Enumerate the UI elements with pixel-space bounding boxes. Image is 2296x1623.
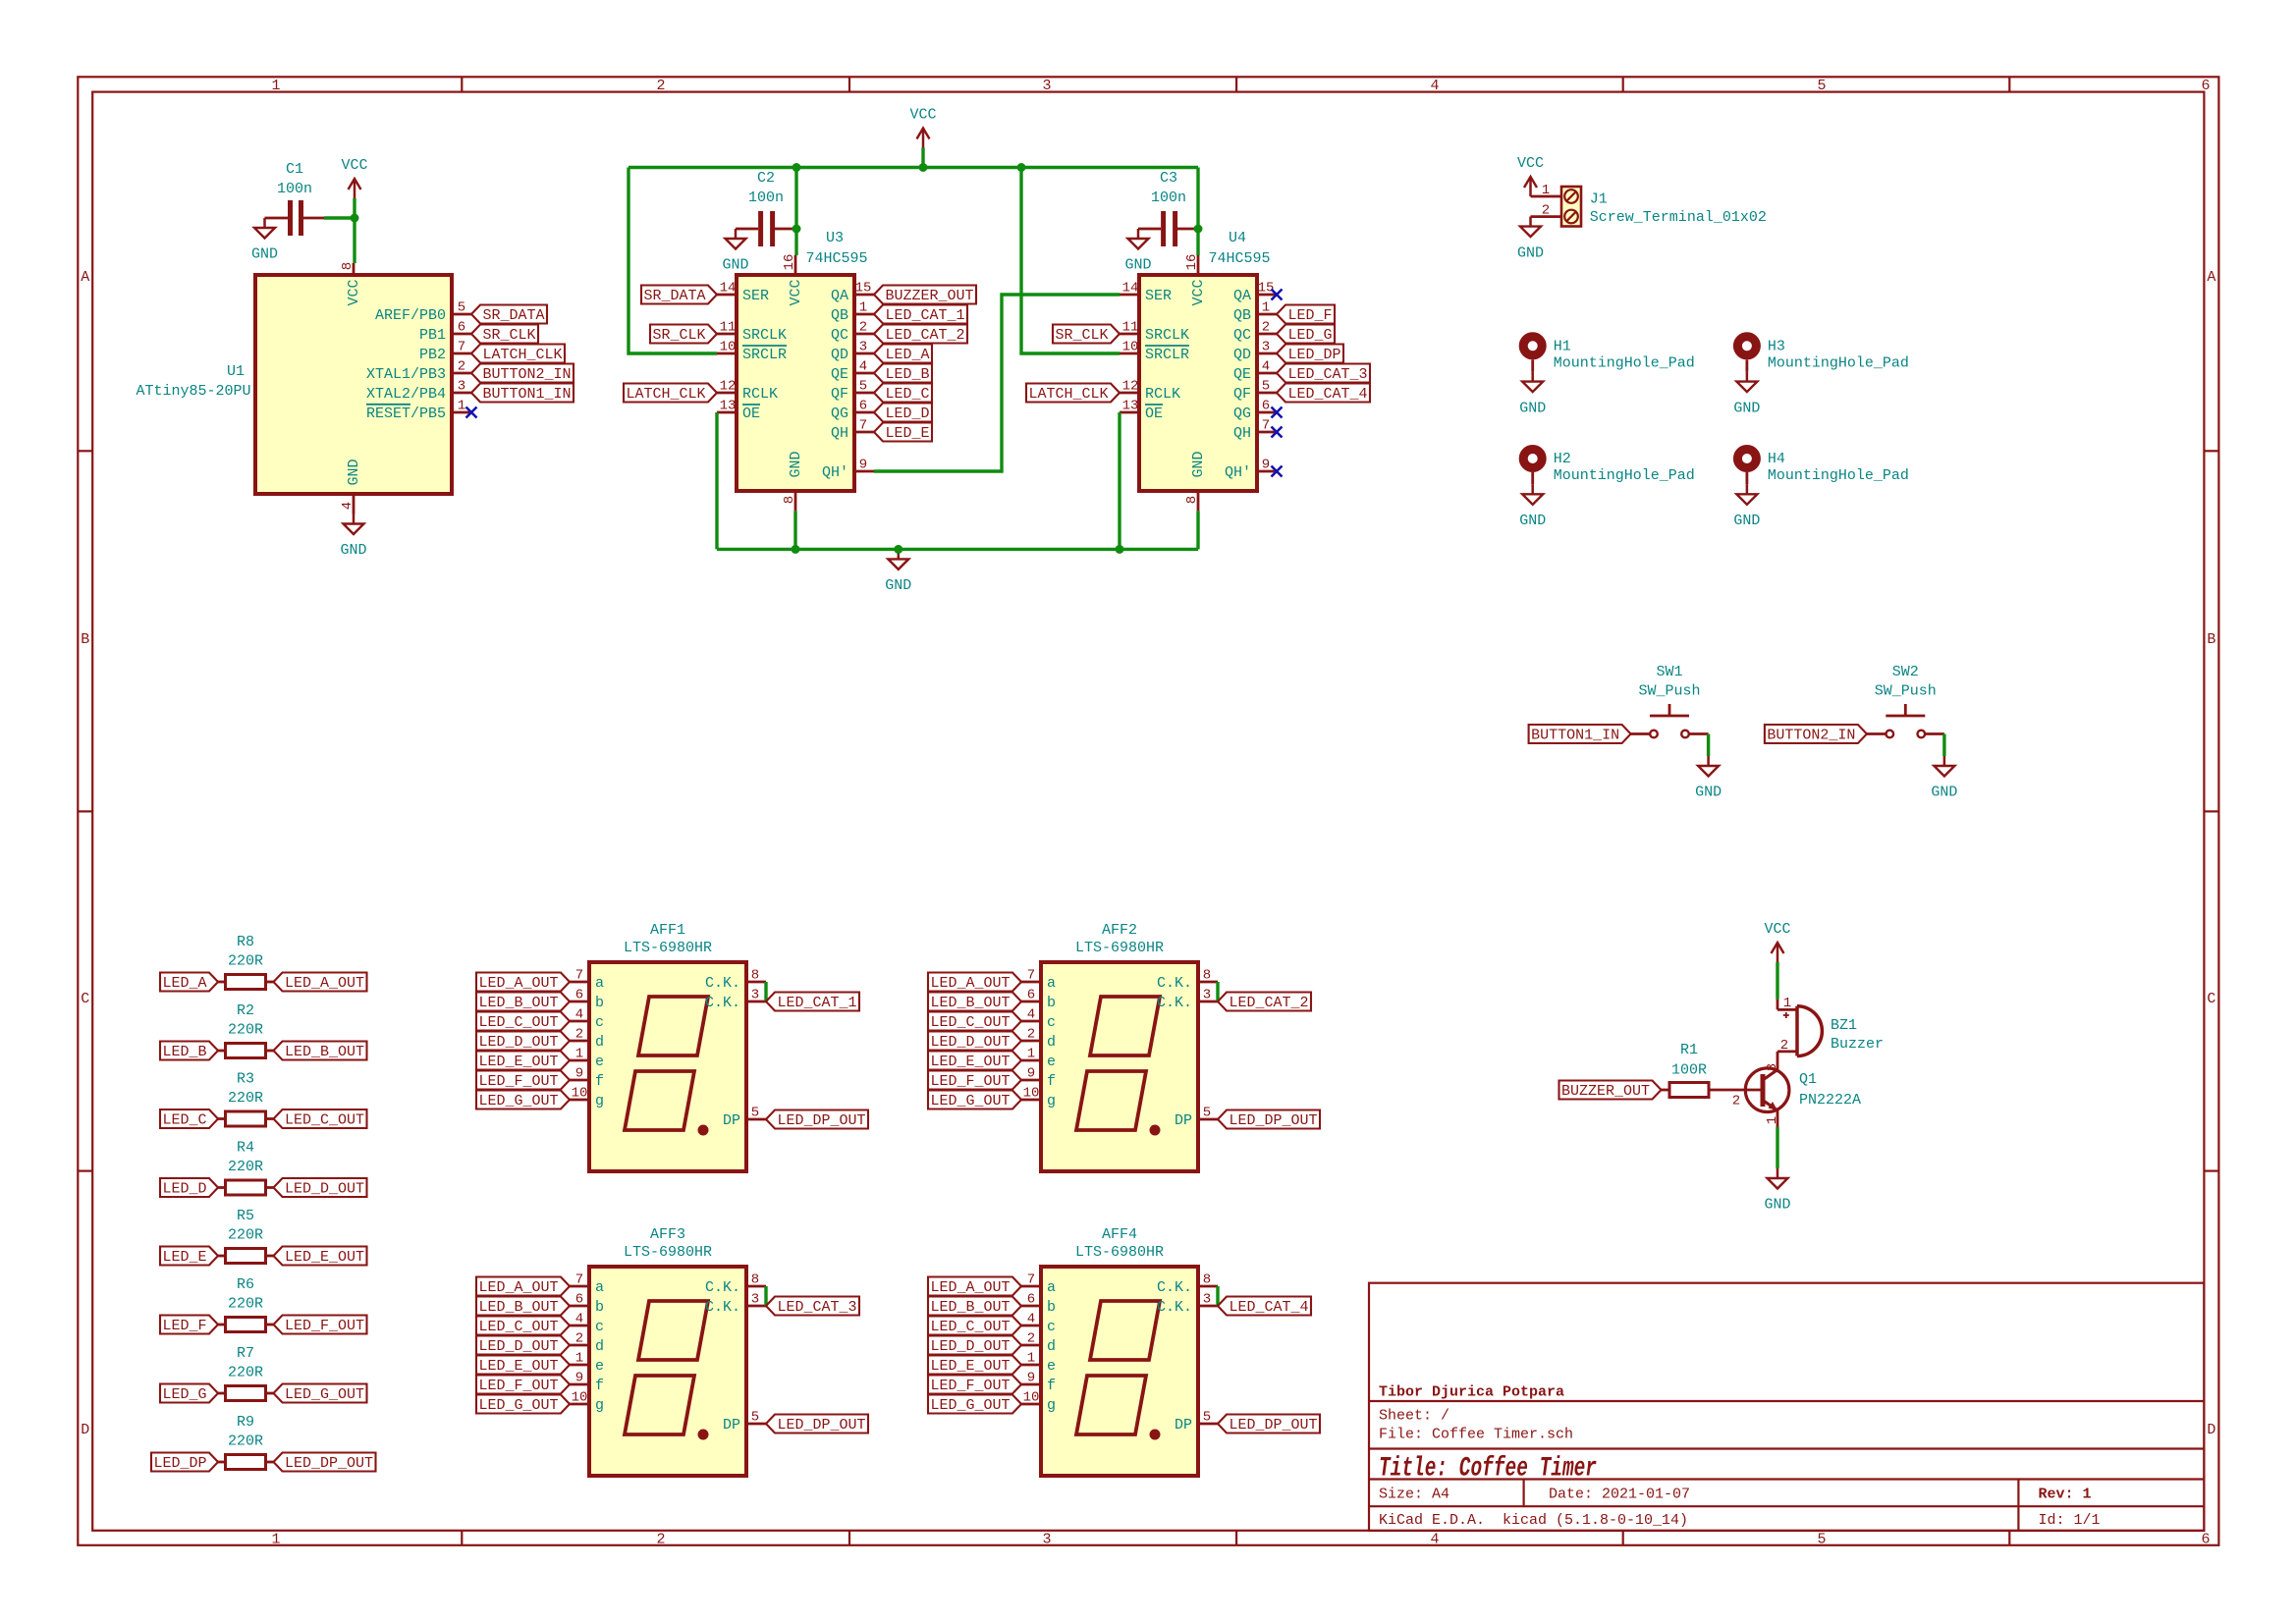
svg-text:LED_B_OUT: LED_B_OUT	[930, 1299, 1010, 1316]
svg-text:LTS-6980HR: LTS-6980HR	[1075, 1244, 1164, 1261]
svg-text:AFF4: AFF4	[1102, 1226, 1137, 1243]
ground at H4	[1746, 484, 1749, 494]
U3 pin 2 QC	[854, 333, 874, 336]
svg-text:2: 2	[1732, 1093, 1740, 1109]
svg-text:LED_C_OUT: LED_C_OUT	[285, 1112, 364, 1129]
svg-text:4: 4	[1027, 1311, 1035, 1326]
svg-text:6: 6	[2201, 1532, 2210, 1548]
U4 pin 2 QC	[1257, 333, 1277, 336]
svg-text:g: g	[595, 1093, 604, 1109]
label LED_CAT_3 at U4	[1277, 364, 1370, 383]
svg-text:LED_DP_OUT: LED_DP_OUT	[777, 1417, 865, 1434]
AFF1 pin 8 C.K.	[746, 981, 766, 984]
label LED_G_OUT at AFF1	[476, 1091, 570, 1109]
ground at Q1	[1777, 1168, 1779, 1178]
svg-text:c: c	[1047, 1319, 1056, 1335]
svg-text:LED_F_OUT: LED_F_OUT	[930, 1073, 1010, 1090]
svg-text:2: 2	[1027, 1026, 1035, 1042]
svg-text:7: 7	[1027, 967, 1035, 983]
U4 body	[1139, 275, 1257, 491]
svg-text:2: 2	[859, 319, 867, 335]
svg-text:LED_C_OUT: LED_C_OUT	[478, 1319, 558, 1335]
J1 pin 2	[1531, 215, 1562, 218]
svg-text:LED_E: LED_E	[885, 425, 929, 442]
label LATCH_CLK at U4	[1026, 384, 1120, 403]
svg-text:GND: GND	[722, 257, 748, 274]
label LED_DP at R9	[151, 1453, 218, 1472]
svg-text:A: A	[2207, 269, 2215, 286]
R3 pins	[218, 1117, 226, 1120]
svg-text:H3: H3	[1768, 339, 1785, 355]
AFF4 decimal point dot	[1150, 1430, 1161, 1440]
svg-text:100n: 100n	[748, 189, 784, 206]
U3 pin 7 QH	[854, 431, 874, 434]
power VCC above C1	[354, 179, 356, 198]
svg-text:f: f	[595, 1073, 604, 1090]
C1 left pin	[265, 217, 289, 220]
svg-text:9: 9	[859, 457, 867, 472]
AFF1 pin 1 e	[570, 1059, 589, 1062]
svg-text:BUZZER_OUT: BUZZER_OUT	[885, 288, 973, 304]
svg-text:5: 5	[1203, 1409, 1211, 1425]
switch SW1 actuator	[1650, 715, 1689, 718]
svg-text:9: 9	[575, 1065, 583, 1081]
svg-text:11: 11	[720, 319, 737, 335]
buzzer BZ1 pin 2	[1777, 1051, 1797, 1054]
U3 pin 1 QB	[854, 313, 874, 316]
svg-text:VCC: VCC	[788, 279, 804, 305]
svg-text:VCC: VCC	[909, 107, 936, 124]
R6 pins	[218, 1324, 226, 1326]
svg-text:2: 2	[575, 1026, 583, 1042]
svg-text:PN2222A: PN2222A	[1799, 1092, 1861, 1109]
AFF4 segment glyph bottom	[1076, 1376, 1146, 1434]
svg-text:LED_B: LED_B	[885, 366, 929, 383]
svg-text:LED_B_OUT: LED_B_OUT	[478, 1299, 558, 1316]
label LED_B_OUT at AFF3	[476, 1297, 570, 1316]
U4 pin 4 QE	[1257, 372, 1277, 375]
svg-text:B: B	[81, 631, 89, 648]
svg-text:g: g	[1047, 1397, 1056, 1414]
label SR_CLK at U3	[650, 325, 717, 344]
svg-text:10: 10	[1122, 339, 1139, 354]
AFF3 pin 4 c	[570, 1325, 589, 1327]
svg-text:e: e	[1047, 1358, 1056, 1375]
wire rail to U3 SRCLR	[629, 168, 717, 354]
svg-text:LED_G_OUT: LED_G_OUT	[930, 1397, 1010, 1414]
ground at C3	[1137, 229, 1140, 239]
svg-text:LED_A_OUT: LED_A_OUT	[930, 1279, 1010, 1296]
J1 body	[1561, 187, 1581, 227]
svg-text:d: d	[595, 1034, 604, 1051]
svg-text:LED_A_OUT: LED_A_OUT	[285, 975, 364, 992]
svg-text:5: 5	[1203, 1105, 1211, 1120]
wire AFF1 C.K. pins	[764, 982, 767, 1001]
svg-text:74HC595: 74HC595	[805, 250, 867, 267]
transistor Q1 body	[1745, 1068, 1789, 1112]
svg-text:220R: 220R	[228, 1090, 263, 1107]
svg-text:2: 2	[656, 1532, 665, 1548]
label LED_C_OUT at R3	[274, 1109, 367, 1128]
svg-text:File: Coffee Timer.sch: File: Coffee Timer.sch	[1379, 1427, 1573, 1443]
svg-text:10: 10	[572, 1085, 588, 1101]
svg-text:100R: 100R	[1671, 1062, 1707, 1079]
svg-text:6: 6	[1262, 398, 1270, 413]
label LED_C_OUT at AFF2	[928, 1012, 1021, 1031]
switch SW2 pin 2	[1925, 732, 1944, 735]
svg-text:QE: QE	[1233, 366, 1251, 383]
U3 pin 9 QH'	[854, 470, 874, 473]
svg-text:10: 10	[1023, 1389, 1040, 1405]
C2 right pin	[775, 228, 796, 231]
svg-text:LED_C_OUT: LED_C_OUT	[930, 1319, 1010, 1335]
label LED_CAT_3 at AFF3	[766, 1297, 859, 1316]
svg-text:g: g	[1047, 1093, 1056, 1109]
svg-text:LED_DP_OUT: LED_DP_OUT	[1229, 1112, 1317, 1129]
svg-text:LED_A: LED_A	[885, 347, 929, 363]
svg-text:MountingHole_Pad: MountingHole_Pad	[1554, 355, 1695, 372]
AFF3 pin 1 e	[570, 1364, 589, 1367]
svg-text:SR_CLK: SR_CLK	[482, 327, 535, 344]
R7 pins	[218, 1392, 226, 1395]
svg-text:LED_E: LED_E	[162, 1249, 206, 1266]
svg-text:C.K.: C.K.	[1157, 995, 1192, 1011]
label LED_E_OUT at AFF1	[476, 1052, 570, 1070]
svg-text:3: 3	[458, 378, 465, 394]
svg-text:Screw_Terminal_01x02: Screw_Terminal_01x02	[1590, 209, 1767, 226]
label LED_A_OUT at AFF4	[928, 1277, 1021, 1296]
svg-text:7: 7	[859, 417, 867, 433]
label LED_D at R4	[160, 1178, 218, 1197]
AFF1 segment glyph top	[638, 997, 708, 1055]
AFF2 pin 9 f	[1021, 1079, 1041, 1082]
ground at C1	[263, 218, 266, 228]
svg-text:LED_C: LED_C	[885, 386, 929, 403]
svg-text:2: 2	[458, 358, 465, 374]
svg-text:2: 2	[656, 78, 665, 94]
svg-text:C.K.: C.K.	[1157, 975, 1192, 992]
AFF3 pin 3 C.K.	[746, 1305, 766, 1308]
wire Q1 emitter to GND	[1776, 1127, 1778, 1168]
svg-text:VCC: VCC	[341, 157, 367, 174]
label BUTTON2_IN	[1765, 725, 1867, 743]
AFF2 pin 3 C.K.	[1198, 1001, 1218, 1003]
AFF3 pin 8 C.K.	[746, 1285, 766, 1288]
svg-text:a: a	[595, 975, 604, 992]
AFF4 pin 4 c	[1021, 1325, 1041, 1327]
junction rail/U3 VCC	[793, 163, 801, 172]
svg-text:4: 4	[575, 1311, 583, 1326]
label LED_DP_OUT at AFF2	[1218, 1110, 1320, 1129]
svg-text:R7: R7	[237, 1345, 254, 1362]
title block dividers	[1522, 1480, 1524, 1507]
U4 pin 3 QD	[1257, 352, 1277, 355]
svg-text:RESET/PB5: RESET/PB5	[366, 406, 446, 422]
C3 right pin	[1177, 228, 1198, 231]
AFF4 pin 7 a	[1021, 1285, 1041, 1288]
svg-text:LED_A: LED_A	[162, 975, 206, 992]
svg-text:2: 2	[1542, 202, 1550, 218]
svg-text:4: 4	[859, 358, 867, 374]
AFF2 pin 2 d	[1021, 1040, 1041, 1043]
svg-text:5: 5	[1262, 378, 1270, 394]
svg-text:LED_E_OUT: LED_E_OUT	[478, 1054, 558, 1070]
svg-text:LTS-6980HR: LTS-6980HR	[1075, 940, 1164, 956]
svg-text:LED_F_OUT: LED_F_OUT	[478, 1073, 558, 1090]
wire C1 to junction	[324, 216, 355, 219]
label LED_G_OUT at AFF4	[928, 1395, 1021, 1414]
svg-text:3: 3	[859, 339, 867, 354]
svg-text:1: 1	[458, 398, 465, 413]
label LED_F_OUT at AFF2	[928, 1071, 1021, 1090]
svg-text:LED_A_OUT: LED_A_OUT	[478, 975, 558, 992]
svg-text:U1: U1	[227, 363, 245, 380]
svg-text:Sheet: /: Sheet: /	[1379, 1408, 1449, 1425]
svg-text:8: 8	[751, 1271, 759, 1287]
AFF1 pin 7 a	[570, 981, 589, 984]
label LED_F_OUT at AFF1	[476, 1071, 570, 1090]
U1 GND pin 4	[353, 494, 355, 514]
svg-text:3: 3	[1262, 339, 1270, 354]
svg-text:SR_CLK: SR_CLK	[1055, 327, 1108, 344]
U1 VCC pin 8	[353, 263, 355, 275]
svg-text:6: 6	[575, 1291, 583, 1307]
C2 left pin	[736, 228, 758, 231]
wire SW1 to GND	[1707, 734, 1710, 757]
svg-text:GND: GND	[346, 459, 362, 485]
svg-text:12: 12	[1122, 378, 1139, 394]
U4 GND pin 8	[1197, 491, 1200, 511]
svg-text:d: d	[595, 1338, 604, 1355]
U3 GND pin 8	[794, 491, 797, 511]
AFF2 segment glyph top	[1090, 997, 1160, 1055]
ground at SW2	[1943, 756, 1946, 766]
svg-text:2: 2	[1262, 319, 1270, 335]
resistor R6 body	[226, 1318, 266, 1332]
wire VCC rail	[629, 166, 1198, 169]
svg-text:SER: SER	[1145, 288, 1172, 304]
svg-text:LED_CAT_2: LED_CAT_2	[885, 327, 964, 344]
U1 pin 1 RESET/PB5	[452, 411, 471, 414]
svg-text:10: 10	[572, 1389, 588, 1405]
svg-text:8: 8	[1203, 1271, 1211, 1287]
svg-text:XTAL1/PB3: XTAL1/PB3	[366, 366, 446, 383]
label LED_CAT_2 at U3	[874, 325, 967, 344]
buzzer BZ1 body	[1795, 1006, 1799, 1056]
AFF1 pin 10 g	[570, 1099, 589, 1102]
U3 pin 13 OE	[717, 411, 737, 414]
label LATCH_CLK at U3	[624, 384, 717, 403]
svg-text:SRCLK: SRCLK	[1145, 327, 1189, 344]
svg-text:6: 6	[575, 987, 583, 1002]
AFF2 pin 4 c	[1021, 1020, 1041, 1023]
H4 pin wire	[1746, 472, 1749, 484]
svg-text:LED_G: LED_G	[162, 1386, 206, 1403]
svg-text:MountingHole_Pad: MountingHole_Pad	[1768, 467, 1909, 484]
label LED_B_OUT at R2	[274, 1042, 367, 1060]
svg-text:LED_D_OUT: LED_D_OUT	[930, 1338, 1010, 1355]
svg-text:Tibor Djurica Potpara: Tibor Djurica Potpara	[1379, 1384, 1564, 1401]
svg-text:1: 1	[1783, 996, 1791, 1011]
svg-text:C: C	[81, 991, 89, 1007]
svg-text:R3: R3	[237, 1071, 254, 1088]
svg-text:LED_G_OUT: LED_G_OUT	[285, 1386, 364, 1403]
AFF2 pin 1 e	[1021, 1059, 1041, 1062]
svg-text:LATCH_CLK: LATCH_CLK	[482, 347, 562, 363]
junction rail/U4 SRCLR	[1017, 163, 1026, 172]
label LED_B at U3	[874, 364, 932, 383]
svg-text:5: 5	[751, 1105, 759, 1120]
AFF3 pin 10 g	[570, 1403, 589, 1406]
U3 body	[737, 275, 854, 491]
svg-text:6: 6	[1027, 987, 1035, 1002]
svg-text:LED_F_OUT: LED_F_OUT	[285, 1318, 364, 1334]
svg-text:R2: R2	[237, 1002, 254, 1019]
label SR_DATA at U1	[471, 305, 547, 324]
AFF3 decimal point dot	[698, 1430, 709, 1440]
junction C3/U4 VCC	[1194, 225, 1203, 234]
svg-text:C2: C2	[757, 170, 775, 187]
resistor R3 body	[226, 1111, 266, 1126]
svg-text:QC: QC	[1233, 327, 1251, 344]
svg-text:LED_B: LED_B	[162, 1044, 206, 1060]
title block outline	[1369, 1283, 2204, 1531]
svg-text:4: 4	[1262, 358, 1270, 374]
label LED_F_OUT at AFF3	[476, 1376, 570, 1394]
svg-text:QE: QE	[831, 366, 848, 383]
label LED_A at R8	[160, 973, 218, 992]
svg-text:QH: QH	[1233, 425, 1251, 442]
label LED_DP at U4	[1277, 345, 1343, 363]
svg-text:LED_E_OUT: LED_E_OUT	[285, 1249, 364, 1266]
AFF4 pin 9 f	[1021, 1383, 1041, 1386]
U3 pin 12 RCLK	[717, 392, 737, 395]
svg-text:8: 8	[1184, 496, 1200, 504]
svg-text:5: 5	[458, 299, 465, 315]
ground on GND bus	[898, 549, 901, 559]
svg-text:13: 13	[720, 398, 737, 413]
wire rail to U4 SRCLR	[1021, 168, 1120, 354]
svg-text:9: 9	[575, 1370, 583, 1385]
svg-text:SRCLR: SRCLR	[1145, 347, 1189, 363]
svg-text:8: 8	[782, 496, 797, 504]
switch SW1 contacts	[1650, 730, 1658, 738]
svg-text:R1: R1	[1680, 1042, 1698, 1058]
ground below U1	[353, 514, 355, 524]
junction U3 GND/bus	[792, 545, 800, 554]
AFF4 pin 8 C.K.	[1198, 1285, 1218, 1288]
svg-text:b: b	[595, 1299, 604, 1316]
junction C2/U3 VCC	[793, 225, 801, 234]
svg-text:B: B	[2207, 631, 2215, 648]
svg-text:74HC595: 74HC595	[1208, 250, 1270, 267]
U3 pin 10 SRCLR	[717, 352, 737, 355]
svg-text:QD: QD	[1233, 347, 1251, 363]
svg-text:C: C	[2207, 991, 2215, 1007]
wire U3 QH prime to U4 SER	[874, 295, 1120, 471]
ground at J1	[1529, 217, 1532, 227]
AFF1 pin 5 DP	[746, 1118, 766, 1121]
wire VCC to buzzer	[1776, 962, 1778, 1000]
svg-text:16: 16	[1184, 254, 1200, 271]
svg-text:QG: QG	[831, 406, 848, 422]
svg-text:H2: H2	[1554, 451, 1571, 467]
U4 pin 12 RCLK	[1120, 392, 1139, 395]
svg-text:GND: GND	[1519, 400, 1546, 416]
U4 pin 5 QF	[1257, 392, 1277, 395]
label LED_G_OUT at R7	[274, 1384, 367, 1403]
svg-text:RCLK: RCLK	[1145, 386, 1180, 403]
svg-text:U3: U3	[826, 230, 844, 246]
svg-text:H1: H1	[1554, 339, 1571, 355]
R5 pins	[218, 1255, 226, 1258]
svg-text:8: 8	[340, 262, 355, 270]
U4 no-connect QH	[1272, 427, 1283, 438]
svg-text:SR_DATA: SR_DATA	[643, 288, 705, 304]
label LED_A_OUT at AFF2	[928, 973, 1021, 992]
U4 pin 9 QH'	[1257, 470, 1277, 473]
label LED_DP_OUT at AFF4	[1218, 1415, 1320, 1434]
svg-text:H4: H4	[1768, 451, 1785, 467]
label LED_DP_OUT at AFF3	[766, 1415, 868, 1434]
svg-text:1: 1	[271, 1532, 280, 1548]
svg-text:PB1: PB1	[419, 327, 446, 344]
svg-text:e: e	[595, 1358, 604, 1375]
svg-text:XTAL2/PB4: XTAL2/PB4	[366, 386, 446, 403]
svg-text:OE: OE	[1145, 406, 1163, 422]
svg-text:BUTTON1_IN: BUTTON1_IN	[1531, 728, 1619, 744]
svg-text:LED_CAT_4: LED_CAT_4	[1229, 1299, 1308, 1316]
svg-text:BUTTON2_IN: BUTTON2_IN	[482, 366, 571, 383]
svg-text:GND: GND	[1931, 784, 1957, 801]
svg-text:C1: C1	[286, 161, 303, 178]
AFF2 pin 5 DP	[1198, 1118, 1218, 1121]
svg-text:220R: 220R	[228, 1022, 263, 1039]
svg-text:a: a	[1047, 975, 1056, 992]
svg-text:d: d	[1047, 1034, 1056, 1051]
svg-text:LED_D: LED_D	[162, 1181, 206, 1198]
svg-text:Size: A4: Size: A4	[1379, 1487, 1449, 1503]
label LED_D_OUT at AFF4	[928, 1336, 1021, 1355]
J1 screw 1	[1564, 189, 1578, 203]
svg-text:1: 1	[1262, 299, 1270, 315]
svg-text:SW2: SW2	[1892, 664, 1919, 680]
resistor R7 body	[226, 1386, 266, 1401]
U4 no-connect QA	[1272, 290, 1283, 300]
svg-text:SW1: SW1	[1656, 664, 1682, 680]
svg-text:13: 13	[1122, 398, 1139, 413]
switch SW1 pin 1	[1631, 732, 1651, 735]
svg-text:12: 12	[720, 378, 737, 394]
svg-text:4: 4	[1027, 1006, 1035, 1022]
svg-text:LED_G_OUT: LED_G_OUT	[478, 1397, 558, 1414]
svg-text:LED_C_OUT: LED_C_OUT	[478, 1014, 558, 1031]
svg-text:LED_F: LED_F	[162, 1318, 206, 1334]
label LED_G at U4	[1277, 325, 1335, 344]
svg-text:LED_F: LED_F	[1287, 307, 1332, 324]
svg-text:1: 1	[859, 299, 867, 315]
svg-text:a: a	[1047, 1279, 1056, 1296]
buzzer BZ1 pin 1	[1777, 1000, 1779, 1010]
svg-text:3: 3	[1203, 987, 1211, 1002]
label LED_B at R2	[160, 1042, 218, 1060]
AFF2 pin 8 C.K.	[1198, 981, 1218, 984]
U1 pin 2 XTAL1/PB3	[452, 372, 471, 375]
svg-text:U4: U4	[1229, 230, 1246, 246]
ground at H3	[1746, 372, 1749, 382]
svg-text:Q1: Q1	[1799, 1071, 1817, 1088]
AFF3 segment glyph top	[638, 1301, 708, 1360]
